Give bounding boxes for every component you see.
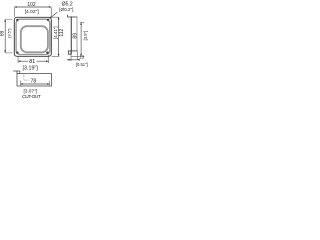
svg-text:[0.51"]: [0.51"] [76, 62, 88, 67]
svg-text:[3.19"]: [3.19"] [22, 65, 38, 71]
svg-text:[4.41"]: [4.41"] [53, 26, 58, 39]
svg-text:[Ø0.2"]: [Ø0.2"] [59, 7, 73, 12]
svg-text:13: 13 [79, 55, 84, 60]
svg-text:[3.07"]: [3.07"] [23, 89, 37, 95]
svg-text:78: 78 [31, 78, 37, 84]
svg-text:112: 112 [59, 29, 65, 37]
svg-text:89: 89 [0, 30, 5, 36]
svg-text:89: 89 [72, 33, 78, 39]
svg-text:[3.5"]: [3.5"] [83, 31, 88, 41]
svg-text:CUT-OUT: CUT-OUT [22, 94, 41, 100]
svg-text:[3.5"]: [3.5"] [7, 29, 12, 38]
svg-text:81: 81 [29, 59, 35, 65]
svg-text:[4.02"]: [4.02"] [25, 9, 40, 15]
